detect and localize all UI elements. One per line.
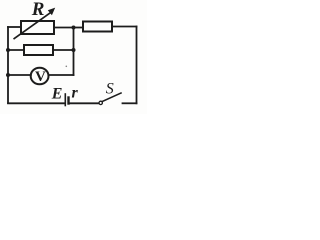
rheostat arrow head bbox=[48, 8, 55, 16]
wire voltmeter branch right bbox=[49, 74, 74, 76]
wire switch to corner bbox=[123, 102, 137, 104]
wire bottom left bbox=[8, 102, 65, 104]
svg-text:S: S bbox=[106, 81, 114, 98]
rheostat arrow shaft bbox=[13, 11, 52, 39]
node dot left middle bbox=[6, 48, 10, 52]
wire top branch left stub bbox=[8, 26, 21, 28]
node dot junction top bbox=[72, 26, 76, 30]
wire R2 to top-right corner bbox=[112, 26, 137, 28]
wire rheostat to junction bbox=[54, 27, 74, 29]
node dot junction middle bbox=[72, 48, 76, 52]
battery short plate bbox=[67, 98, 69, 104]
wire voltmeter branch left bbox=[8, 74, 31, 76]
battery long plate bbox=[64, 94, 66, 106]
switch pivot circle bbox=[99, 101, 102, 104]
wire middle branch left bbox=[8, 49, 24, 51]
svg-text:E: E bbox=[51, 86, 63, 103]
wire battery to switch bbox=[70, 102, 99, 104]
wire junction to R2 bbox=[74, 27, 84, 29]
svg-text:r: r bbox=[72, 85, 79, 102]
switch blade bbox=[102, 93, 121, 102]
resistor rheostat box R bbox=[21, 21, 54, 34]
svg-text:V: V bbox=[35, 69, 46, 85]
resistor middle box bbox=[24, 45, 53, 55]
speck bbox=[66, 66, 68, 68]
wire left vertical bbox=[7, 27, 9, 103]
wire middle branch right bbox=[53, 49, 74, 51]
wire junction vertical bbox=[73, 28, 75, 76]
voltmeter V circle bbox=[31, 68, 49, 85]
wire right vertical bbox=[136, 27, 138, 104]
node dot left voltmeter bbox=[6, 73, 10, 77]
svg-text:R: R bbox=[31, 0, 45, 20]
resistor R2 box bbox=[83, 22, 112, 32]
